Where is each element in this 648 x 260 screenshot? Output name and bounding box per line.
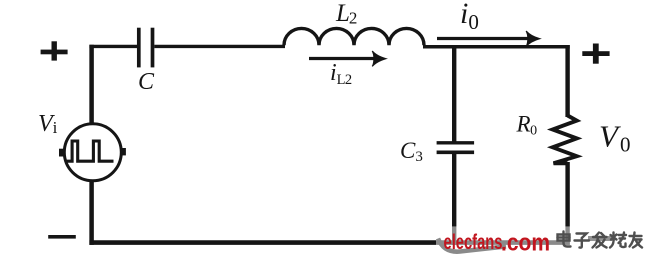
char fa (593, 233, 607, 248)
voltage source left tab (59, 149, 64, 157)
voltage source Vi circle (64, 124, 121, 181)
char you (630, 233, 643, 248)
wire capacitor C to inductor L2 (154, 45, 285, 48)
char zi (575, 234, 590, 248)
char shao (610, 233, 626, 248)
wire top-left horizontal (source top to capacitor C) (89, 45, 137, 48)
watermark translucent box (436, 226, 648, 260)
capacitor C right plate (151, 28, 155, 68)
voltage source right tab (120, 148, 126, 155)
wire left vertical lower (source circle bottom to bottom wire) (89, 179, 94, 245)
watermark grey bar (588, 236, 615, 241)
capacitor C left plate (137, 28, 141, 68)
plus sign top-left (41, 41, 68, 60)
svg-text:C: C (138, 69, 155, 95)
wire inductor L2 to top-right corner (423, 45, 570, 49)
char dian (558, 232, 571, 247)
capacitor C3 top plate (437, 141, 475, 144)
watermark grey swoosh (438, 239, 506, 252)
voltage source Vi square-wave symbol (67, 141, 114, 161)
current arrow iL2 (309, 51, 386, 66)
wire left vertical upper (corner to source circle top) (89, 45, 94, 125)
inductor L2 (4 arcs) (284, 28, 424, 45)
watermark Chinese characters (hand-drawn strokes) (558, 232, 643, 248)
capacitor C3 bottom plate (437, 151, 475, 155)
current arrow i0 (437, 31, 540, 46)
node junction C3 branch (452, 47, 456, 142)
wire resistor R0 down (565, 162, 569, 245)
resistor R0 zigzag (553, 116, 577, 164)
wire right vertical (corner down to resistor R0) (565, 45, 569, 117)
plus sign top-right (582, 44, 609, 64)
minus sign bottom-left (48, 235, 76, 239)
wire C3 bottom plate down to bottom wire (452, 154, 456, 245)
svg-text:elecfans.com: elecfans.com (444, 230, 551, 257)
bottom wire (return path) (89, 240, 569, 245)
